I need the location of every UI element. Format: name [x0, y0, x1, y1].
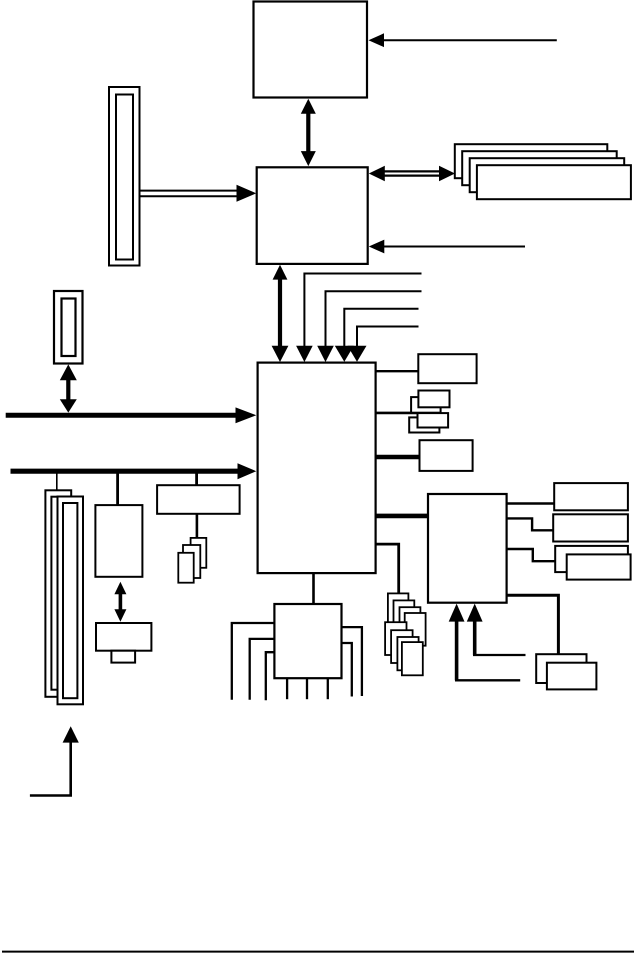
line-in rect: [553, 514, 628, 541]
Super IO left elbow wire 1: [232, 623, 275, 700]
double arrow AGP slot to AGP bus: [60, 364, 77, 412]
Super IO bottom pin 3: [327, 678, 329, 699]
PCI slot A outer (back): [45, 490, 71, 697]
Super IO bottom pin 2: [306, 678, 308, 699]
PCI slot A inner: [51, 497, 66, 690]
memory bus double arrow: [369, 166, 455, 181]
mic rect front: [567, 554, 631, 579]
wire elbow 4: [348, 327, 419, 362]
footer rule: [2, 951, 634, 953]
USB stack bottom rect 1: [385, 622, 406, 655]
wire drop PCI bus to modem block: [116, 473, 119, 506]
port pair upper back rect: [411, 397, 441, 413]
up arrow 1 into codec bottom: [449, 604, 521, 681]
Super IO right elbow wire 2: [342, 643, 352, 697]
phone jack block: [96, 623, 151, 651]
Super IO bottom pin 1: [286, 678, 288, 699]
up arrow 2 into codec bottom: [467, 604, 526, 655]
USB stack top rect 2: [394, 600, 415, 633]
wire elbow 2: [317, 291, 421, 362]
CPU slot connector inner: [116, 95, 133, 260]
South Bridge box: [258, 363, 376, 573]
double arrow modem to jack: [114, 582, 126, 622]
wire elbow codec to line-in rect: [507, 518, 553, 530]
USB stack top rect 3: [400, 607, 421, 640]
wire elbow codec to game port rects: [507, 595, 559, 655]
LAN connector stack rect 2: [183, 545, 200, 578]
audio codec box: [428, 494, 507, 603]
wire South Bridge to Super IO: [312, 573, 315, 605]
LAN connector stack rect 3 (front): [178, 553, 193, 583]
wire elbow 3: [335, 309, 419, 362]
LAN connector stack rect 1 (back): [191, 538, 207, 568]
Super IO box: [274, 604, 341, 678]
thick stub wire to IDE rect: [376, 455, 420, 460]
wire codec to line-out rect: [507, 502, 554, 504]
phone jack tab: [111, 651, 135, 663]
PCI bus thick wire with arrow into South Bridge: [11, 463, 257, 479]
game port rect back: [536, 654, 586, 683]
double arrow CPU to North Bridge: [301, 99, 316, 166]
Super IO right elbow wire 1: [342, 627, 362, 696]
double arrow North Bridge to South Bridge: [272, 265, 289, 362]
USB stack bottom rect 2: [391, 630, 413, 663]
PCI slot B inner: [63, 503, 77, 698]
double-line wire slot to North Bridge with arrowhead: [140, 185, 256, 202]
DIMM socket 3: [470, 158, 625, 192]
DIMM socket 2: [462, 151, 617, 185]
stub wire to BIOS rect: [376, 370, 419, 372]
North Bridge box: [257, 167, 368, 264]
CPU box (top): [254, 2, 368, 98]
AGP slot inner: [62, 299, 76, 357]
wire arrow into North Bridge lower right: [369, 240, 525, 254]
BIOS rect: [418, 354, 476, 383]
wire elbow codec to mic rects: [507, 549, 556, 561]
wire LAN block to connector stack: [196, 514, 199, 539]
stub wire to port pair cluster: [376, 412, 436, 415]
wire arrow into CPU box right side: [369, 33, 557, 47]
AGP bus thick wire with arrow into South Bridge: [6, 407, 257, 423]
Super IO left elbow wire 2: [250, 639, 275, 700]
wire elbow South Bridge to USB stack: [376, 544, 399, 594]
port pair upper front rect: [418, 391, 449, 408]
USB stack bottom rect 4 (front): [402, 642, 423, 675]
wire drop PCI bus to LAN block: [195, 473, 198, 487]
CPU slot connector (tall left) outer: [109, 87, 140, 266]
PCI slot B outer (front): [58, 497, 84, 705]
line-out rect: [554, 483, 628, 510]
IDE rect: [420, 440, 473, 471]
USB stack bottom rect 3: [397, 637, 418, 670]
AGP slot small (left) outer: [54, 291, 83, 364]
wire elbow 1 North Bridge area to South Bridge top: [296, 274, 421, 363]
thick stub wire to audio codec: [376, 514, 428, 519]
port pair lower front rect: [418, 413, 449, 427]
mic rect back: [555, 546, 628, 572]
modem block: [95, 505, 142, 577]
USB stack top rect 1: [388, 593, 409, 626]
port pair lower back rect: [409, 417, 439, 432]
LAN block: [157, 485, 240, 514]
USB stack top rect 4 (tall): [405, 613, 426, 646]
game port rect front: [547, 663, 597, 690]
bottom-left up arrow wire: [30, 726, 79, 795]
Super IO left elbow wire 3: [266, 652, 275, 700]
DIMM socket 4 (front): [477, 165, 631, 199]
wire drop PCI bus to PCI slots: [56, 473, 58, 491]
DIMM socket 1 (back): [455, 144, 608, 178]
